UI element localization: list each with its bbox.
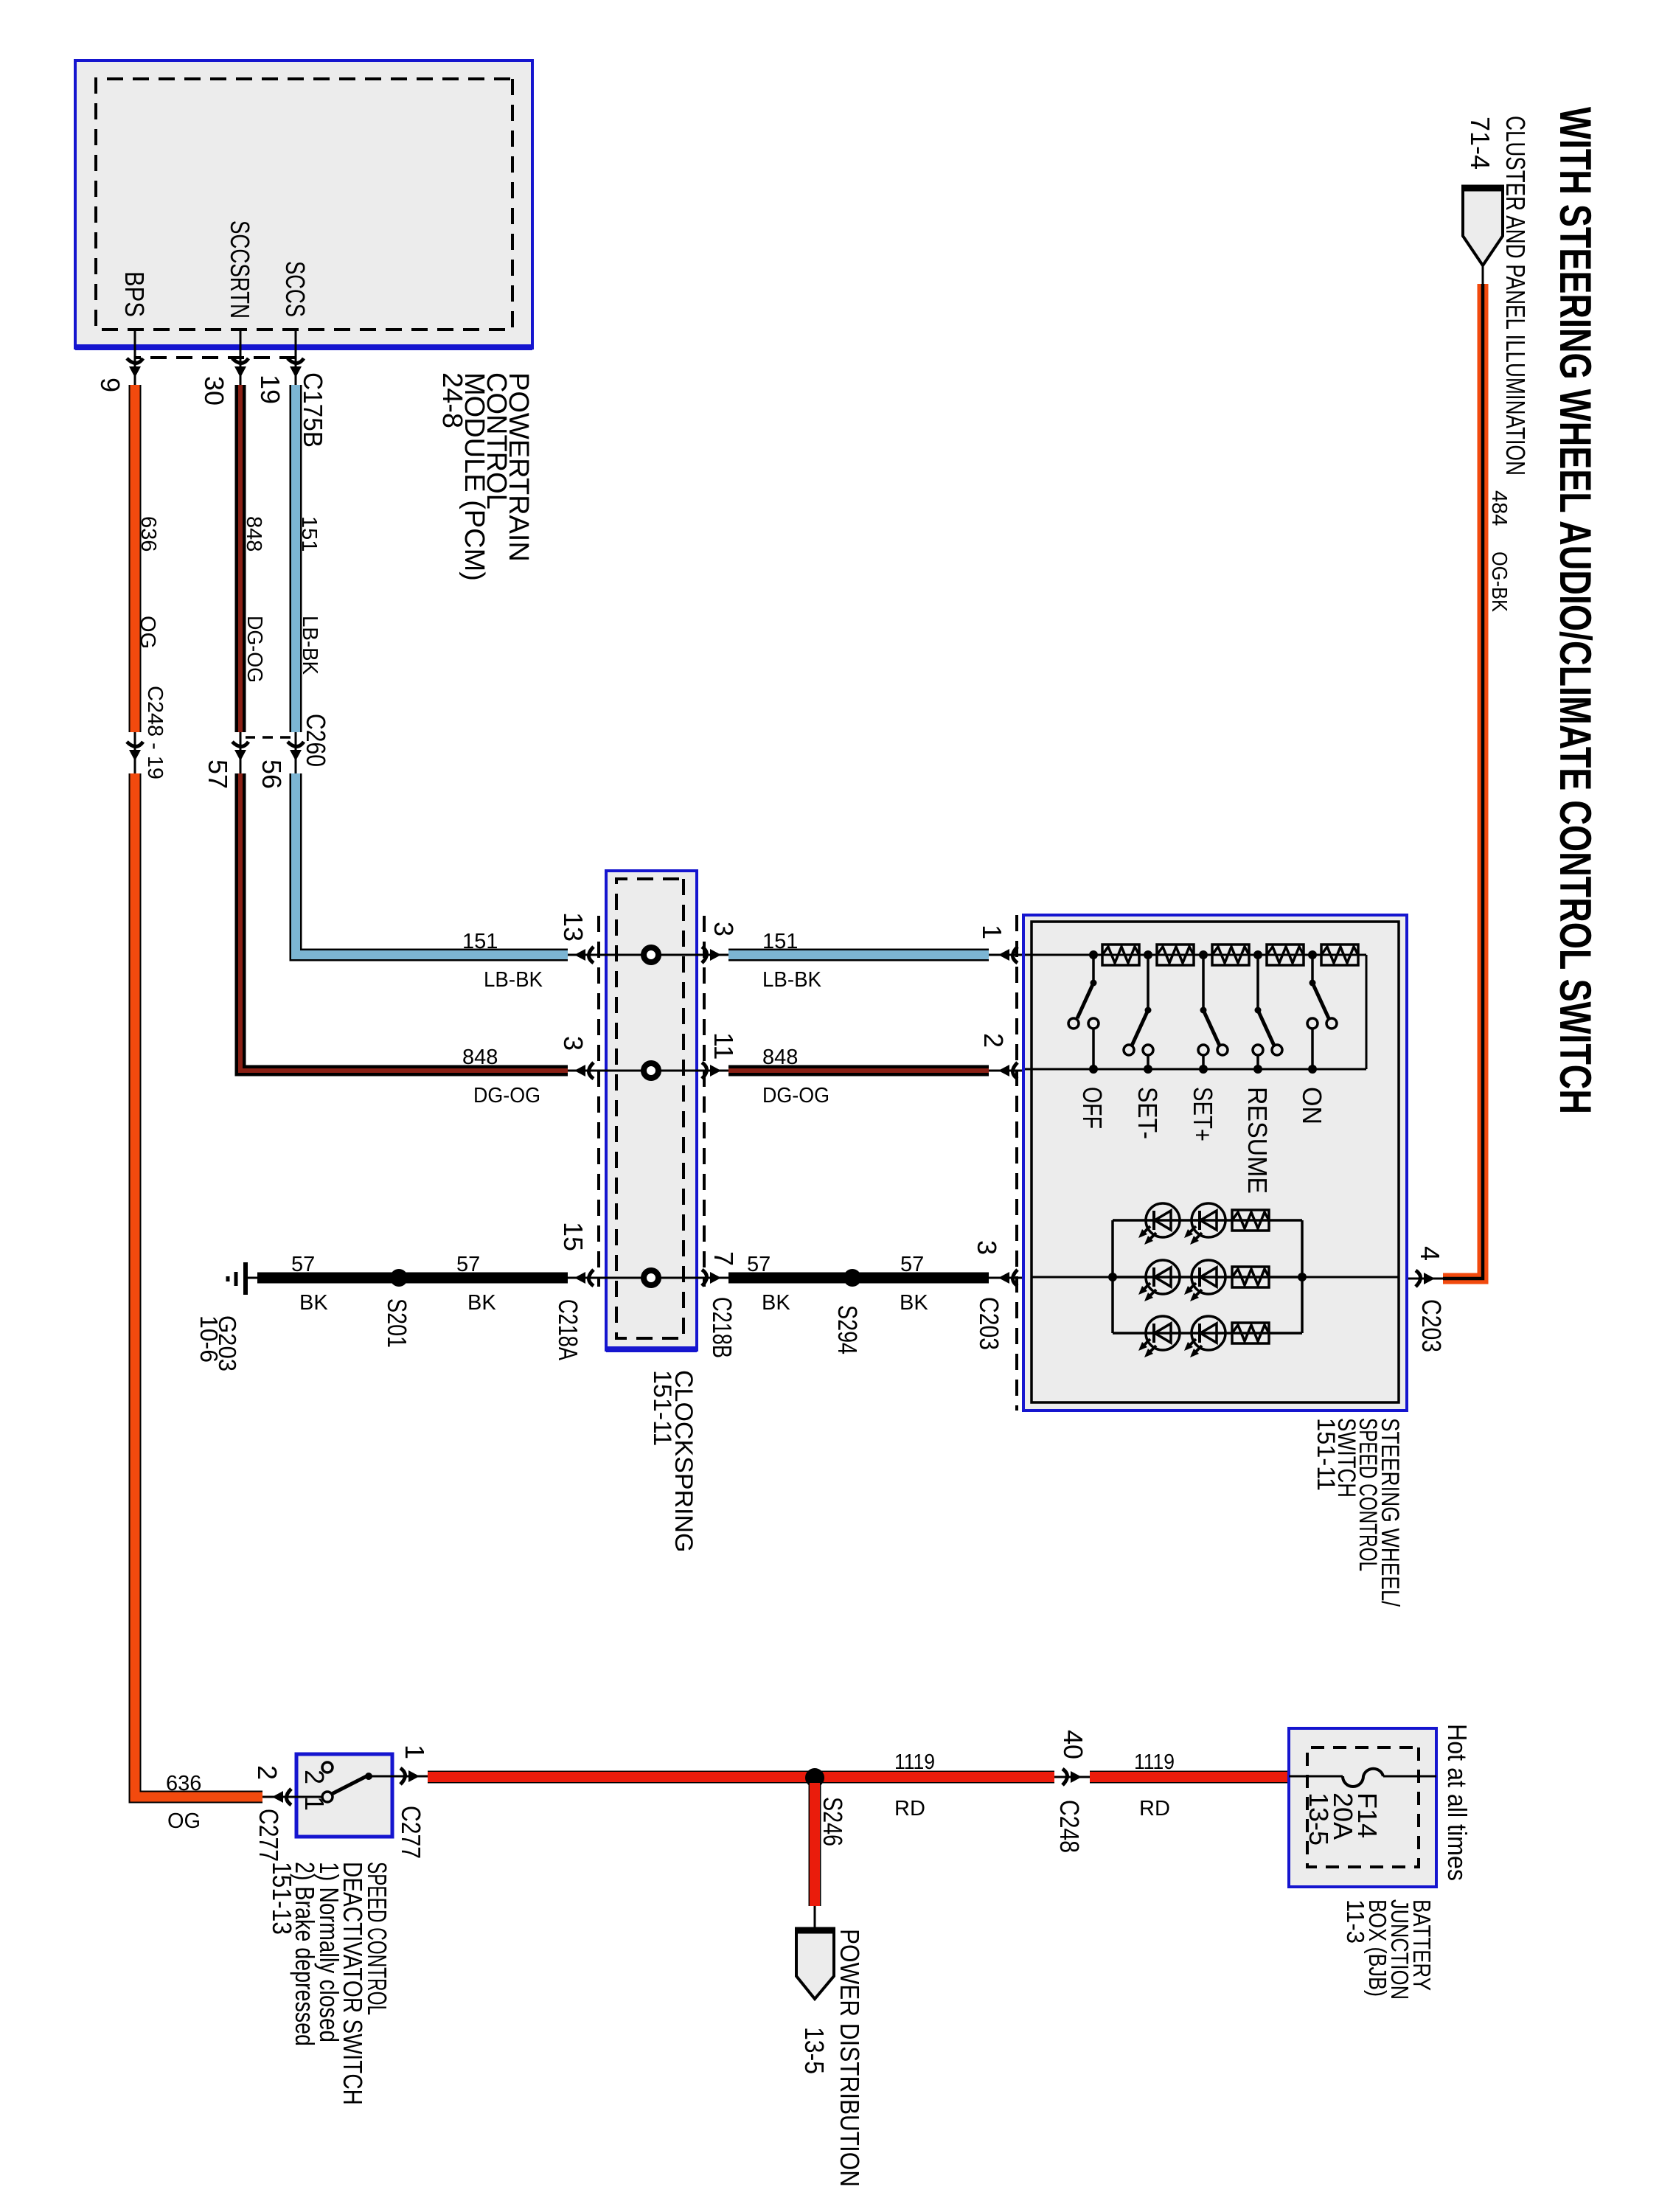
- svg-text:151: 151: [462, 930, 498, 953]
- connector C260 gap line on 848: [240, 732, 242, 773]
- fuse F14 element: [1343, 1769, 1383, 1787]
- LED C1: [1184, 1316, 1225, 1357]
- svg-text:Hot at all times: Hot at all times: [1442, 1724, 1472, 1881]
- BJB inner dashed rect: [1307, 1747, 1419, 1867]
- svg-text:OG-BK: OG-BK: [1487, 552, 1511, 613]
- svg-text:RESUME: RESUME: [1242, 1087, 1273, 1194]
- connector C203 dashed line: [1015, 915, 1018, 1411]
- pin BPS arrow: [127, 358, 143, 378]
- wire 151 clockspring to switch: [728, 949, 989, 961]
- svg-text:7: 7: [709, 1251, 739, 1266]
- svg-text:LB-BK: LB-BK: [762, 968, 822, 992]
- svg-text:636: 636: [166, 1772, 201, 1795]
- svg-text:11: 11: [709, 1032, 739, 1060]
- resistor R1: [1102, 945, 1139, 965]
- clockspring pin 11 arrow: [702, 1062, 721, 1079]
- clockspring pin 13 arrow: [574, 947, 594, 963]
- switch pin 2 arrow: [998, 1062, 1018, 1079]
- connector C248-19 arrow: [127, 742, 143, 761]
- svg-text:4: 4: [1415, 1246, 1445, 1261]
- svg-text:C248: C248: [1054, 1800, 1085, 1853]
- svg-text:13: 13: [558, 912, 588, 942]
- svg-text:151-11: 151-11: [1312, 1418, 1340, 1491]
- svg-text:71-4: 71-4: [1465, 116, 1495, 170]
- pin BPS stub: [134, 330, 136, 386]
- LED A1: [1184, 1203, 1225, 1245]
- svg-text:BK: BK: [299, 1291, 328, 1315]
- svg-text:57: 57: [203, 759, 233, 789]
- svg-text:POWER DISTRIBUTION: POWER DISTRIBUTION: [835, 1929, 865, 2187]
- connector C248 arrow: [1062, 1769, 1082, 1785]
- clockspring pin 3 bottom arrow: [574, 1062, 594, 1079]
- svg-text:848: 848: [242, 516, 265, 552]
- svg-text:2: 2: [252, 1765, 282, 1780]
- svg-text:S201: S201: [382, 1298, 412, 1348]
- svg-text:LB-BK: LB-BK: [484, 968, 543, 992]
- LED bus junction dots: [1108, 1273, 1307, 1281]
- svg-text:BK: BK: [900, 1291, 928, 1315]
- svg-text:3: 3: [709, 922, 739, 936]
- connector C218A dashed line: [597, 916, 600, 1287]
- switch SET-: [1124, 955, 1153, 1069]
- svg-text:C203: C203: [1416, 1299, 1447, 1352]
- illumination resistor A: [1232, 1210, 1269, 1231]
- svg-text:1: 1: [977, 925, 1007, 939]
- connector C218B dashed line: [703, 916, 706, 1287]
- wire 57 BK clockspring to switch: [728, 1273, 989, 1284]
- deactivator switch box: [296, 1754, 392, 1837]
- deactivator contact 2 open: [322, 1762, 333, 1773]
- svg-text:C175B: C175B: [298, 372, 328, 448]
- svg-text:13-5: 13-5: [1304, 1792, 1334, 1846]
- svg-text:RD: RD: [1139, 1797, 1170, 1820]
- deactivator pin 2 arrow: [272, 1789, 291, 1805]
- svg-text:S246: S246: [818, 1797, 848, 1846]
- wire 848 clockspring to switch: [728, 1065, 989, 1077]
- junction S201: [390, 1269, 408, 1287]
- rail A resistor ladder: [1025, 954, 1366, 956]
- svg-text:11-3: 11-3: [1342, 1899, 1369, 1944]
- pin SCCSRTN stub: [240, 330, 242, 386]
- switch SET+: [1198, 955, 1228, 1069]
- svg-text:DG-OG: DG-OG: [243, 616, 266, 683]
- svg-text:ON: ON: [1297, 1087, 1327, 1124]
- clockspring contact 848: [644, 1063, 658, 1078]
- clockspring inner dashed rect: [616, 879, 684, 1338]
- svg-text:SET+: SET+: [1188, 1087, 1218, 1141]
- clockspring pin 15 line: [568, 1277, 697, 1279]
- pin SCCSRTN arrow: [232, 358, 248, 378]
- svg-text:1: 1: [400, 1745, 430, 1759]
- svg-text:848: 848: [462, 1046, 498, 1069]
- svg-text:DG-OG: DG-OG: [762, 1084, 829, 1107]
- svg-text:BK: BK: [762, 1291, 790, 1315]
- switch pin 2 stub: [989, 1070, 1032, 1072]
- LED bottom bracket: [1111, 1220, 1114, 1333]
- svg-text:57: 57: [747, 1253, 771, 1276]
- svg-text:SCCSRTN: SCCSRTN: [225, 220, 255, 319]
- deactivator pin 1 stub: [392, 1775, 428, 1778]
- svg-text:CLUSTER AND PANEL ILLUMINATION: CLUSTER AND PANEL ILLUMINATION: [1500, 116, 1531, 476]
- svg-text:24-8: 24-8: [437, 372, 467, 428]
- svg-text:C277: C277: [254, 1809, 284, 1862]
- illumination resistor C: [1232, 1323, 1269, 1343]
- LED top bracket: [1301, 1220, 1304, 1333]
- switch pin 3 stub: [989, 1277, 1032, 1279]
- resistor R2: [1157, 945, 1194, 965]
- LED C2: [1138, 1316, 1180, 1357]
- svg-text:19: 19: [255, 375, 285, 404]
- illumination resistor B: [1232, 1267, 1269, 1287]
- rail A junction dots: [1089, 950, 1317, 959]
- resistor R3: [1212, 945, 1249, 965]
- clockspring box: [606, 871, 697, 1350]
- svg-text:484: 484: [1487, 490, 1511, 526]
- svg-text:C218A: C218A: [553, 1299, 583, 1360]
- rail top link: [1366, 955, 1368, 1069]
- clockspring pin 13 line: [568, 954, 697, 956]
- deactivator pivot dot: [365, 1773, 372, 1780]
- clockspring pin 7 line: [697, 1277, 728, 1279]
- svg-text:OG: OG: [136, 616, 159, 649]
- svg-text:BPS: BPS: [119, 271, 150, 317]
- label CLOCKSPRING 151-11: [648, 1370, 698, 1553]
- label G203 10-6: [195, 1315, 241, 1371]
- connector C260 dashed link: [246, 736, 291, 739]
- svg-text:C203: C203: [974, 1297, 1004, 1350]
- clockspring pin 7 arrow: [702, 1270, 721, 1286]
- LED column B line: [1113, 1276, 1302, 1279]
- svg-text:C248 - 19: C248 - 19: [143, 686, 167, 779]
- svg-text:151: 151: [762, 930, 798, 953]
- svg-text:3: 3: [972, 1240, 1002, 1255]
- svg-text:57: 57: [291, 1253, 315, 1276]
- deactivator pin 1 arrow: [400, 1768, 420, 1784]
- wire 484 OG-BK: [1443, 284, 1483, 1279]
- svg-text:848: 848: [762, 1046, 798, 1069]
- connector C260 gap line on 151: [295, 732, 297, 773]
- wire 848 DG-OG PCM to clockspring: [240, 385, 568, 1071]
- wire 1119 RD main: [428, 1771, 1289, 1784]
- wire 57 BK ground to clockspring: [257, 1273, 568, 1284]
- connector C175B dashed line: [135, 356, 296, 359]
- label BATTERY JUNCTION BOX (BJB) 11-3: [1342, 1899, 1436, 2000]
- clockspring pin 3 top arrow: [702, 947, 721, 963]
- svg-text:151: 151: [297, 516, 321, 552]
- wire pin4 stub: [1399, 1278, 1443, 1280]
- svg-text:OG: OG: [167, 1809, 201, 1833]
- deactivator internal pin1 line: [369, 1775, 392, 1778]
- svg-text:56: 56: [257, 759, 287, 789]
- wire 1119 branch to power distribution: [809, 1783, 821, 1930]
- clockspring pin 3 top line: [697, 954, 728, 956]
- resistor R4: [1267, 945, 1304, 965]
- svg-text:636: 636: [136, 516, 160, 552]
- svg-text:LB-BK: LB-BK: [298, 616, 321, 675]
- clockspring contact 151: [644, 947, 658, 962]
- label SPEED CONTROL DEACTIVATOR SWITCH notes: [267, 1862, 392, 2105]
- switch pin 1 arrow: [998, 947, 1018, 963]
- connector C260 arrow on 151: [288, 742, 304, 761]
- LED column C line: [1113, 1332, 1302, 1335]
- svg-text:WITH STEERING WHEEL AUDIO/CLIM: WITH STEERING WHEEL AUDIO/CLIMATE CONTRO…: [1551, 107, 1600, 1114]
- pin3 internal line: [1032, 1276, 1113, 1279]
- resistor R5: [1321, 945, 1358, 965]
- connector C260 arrow on 848: [232, 742, 248, 761]
- svg-text:RD: RD: [894, 1797, 925, 1820]
- svg-text:151-13: 151-13: [267, 1862, 297, 1935]
- svg-text:9: 9: [95, 378, 125, 392]
- svg-text:1119: 1119: [894, 1750, 935, 1774]
- pin 4 arrow C203: [1416, 1270, 1435, 1287]
- svg-text:BK: BK: [467, 1291, 496, 1315]
- svg-text:57: 57: [900, 1253, 924, 1276]
- svg-text:2: 2: [299, 1770, 330, 1784]
- switch pin 3 arrow: [998, 1270, 1018, 1286]
- svg-text:1: 1: [299, 1796, 330, 1811]
- rail B switch return: [1025, 1068, 1366, 1071]
- svg-text:30: 30: [199, 376, 229, 406]
- label POWERTRAIN CONTROL MODULE (PCM) 24-8: [437, 372, 534, 581]
- svg-text:151-11: 151-11: [648, 1370, 676, 1446]
- svg-text:C277: C277: [396, 1806, 426, 1859]
- switch ON: [1307, 955, 1337, 1069]
- switch box inner black rect: [1032, 922, 1399, 1402]
- label F14 20A 13-5: [1304, 1792, 1382, 1846]
- pin4 internal line: [1302, 1276, 1399, 1279]
- label STEERING WHEEL/ SPEED CONTROL SWITCH 151-11: [1312, 1418, 1404, 1607]
- svg-text:1119: 1119: [1134, 1750, 1175, 1774]
- svg-text:40: 40: [1058, 1730, 1088, 1759]
- connector pentagon POWER DISTRIBUTION: [795, 1929, 835, 1999]
- clockspring pin 3 bottom line: [568, 1070, 697, 1072]
- battery junction box: [1289, 1728, 1436, 1887]
- junction S246: [805, 1768, 824, 1787]
- svg-text:57: 57: [456, 1253, 480, 1276]
- svg-text:C218B: C218B: [707, 1297, 737, 1358]
- deactivator pin 2 stub: [262, 1796, 296, 1798]
- svg-text:13-5: 13-5: [799, 2027, 829, 2074]
- clockspring pin 15 arrow: [574, 1270, 594, 1286]
- svg-text:C260: C260: [301, 714, 331, 767]
- pin SCCS stub: [295, 330, 297, 386]
- LED A2: [1138, 1203, 1180, 1245]
- connector pentagon CLUSTER AND PANEL ILLUMINATION: [1461, 187, 1504, 285]
- connector C248 gap line: [1054, 1776, 1090, 1778]
- clockspring pin 11 line: [697, 1070, 728, 1072]
- svg-text:10-6: 10-6: [195, 1315, 223, 1363]
- wire 151 LB-BK PCM to clockspring: [296, 385, 568, 955]
- LED column A line: [1113, 1219, 1302, 1222]
- connector C248-19 gap line: [134, 732, 136, 773]
- junction S294: [844, 1269, 861, 1287]
- switch box STEERING WHEEL/SPEED CONTROL SWITCH: [1023, 915, 1407, 1411]
- svg-text:15: 15: [558, 1222, 588, 1251]
- deactivator blade: [332, 1776, 366, 1794]
- switch OFF: [1068, 955, 1099, 1069]
- svg-text:DG-OG: DG-OG: [473, 1084, 540, 1107]
- PCM inner dashed connector outline: [96, 79, 512, 330]
- wire 636 OG BPS run: [135, 385, 262, 1797]
- svg-text:3: 3: [558, 1036, 588, 1051]
- pin SCCS arrow: [288, 358, 304, 378]
- fuse F14 line: [1289, 1775, 1436, 1778]
- svg-text:S294: S294: [832, 1305, 863, 1354]
- svg-text:OFF: OFF: [1077, 1087, 1107, 1129]
- svg-text:2: 2: [978, 1033, 1009, 1048]
- svg-text:SET-: SET-: [1133, 1087, 1163, 1139]
- deactivator internal pin2 line: [296, 1796, 322, 1798]
- svg-text:SCCS: SCCS: [280, 261, 310, 317]
- clockspring contact 57: [644, 1270, 658, 1285]
- switch RESUME: [1253, 955, 1282, 1069]
- switch pin 1 stub: [989, 954, 1032, 956]
- ground G203: [228, 1262, 257, 1295]
- rail B junction dots: [1089, 1065, 1317, 1074]
- LED B2: [1138, 1260, 1180, 1301]
- LED B1: [1184, 1260, 1225, 1301]
- module PCM box: [75, 60, 532, 348]
- deactivator contact 1: [322, 1792, 333, 1802]
